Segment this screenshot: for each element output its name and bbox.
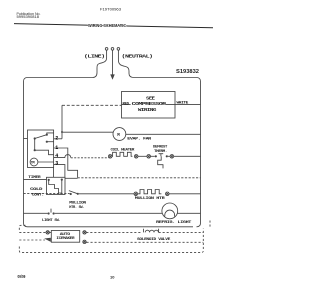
svg-text:5995390818: 5995390818: [17, 15, 40, 19]
svg-text:1: 1: [55, 145, 58, 151]
svg-text:S193832: S193832: [176, 69, 199, 75]
svg-text:TM: TM: [31, 162, 35, 166]
svg-text:WIRING: WIRING: [138, 107, 157, 113]
svg-text:DEFROST: DEFROST: [153, 145, 168, 149]
svg-text:09/09: 09/09: [18, 274, 26, 279]
svg-text:COMPRESSOR: COMPRESSOR: [132, 101, 167, 107]
svg-text:TIMER: TIMER: [28, 176, 41, 180]
svg-text:HTR. SW.: HTR. SW.: [69, 206, 84, 210]
svg-text:CONT.: CONT.: [32, 193, 44, 197]
svg-text:2: 2: [55, 135, 58, 141]
svg-text:COLD: COLD: [30, 188, 44, 192]
svg-text:EVAP. FAN: EVAP. FAN: [127, 138, 151, 142]
svg-text:ICEMAKER: ICEMAKER: [56, 237, 75, 241]
svg-text:(LINE): (LINE): [84, 54, 105, 60]
svg-text:M: M: [117, 134, 120, 138]
svg-text:MULLION HTR: MULLION HTR: [135, 197, 166, 201]
svg-text:(NEUTRAL): (NEUTRAL): [122, 54, 153, 60]
svg-text:WIRING SCHEMATIC: WIRING SCHEMATIC: [88, 23, 126, 29]
svg-text:SEE: SEE: [146, 95, 155, 101]
svg-text:LIGHT SW.: LIGHT SW.: [42, 219, 61, 223]
svg-text:REFRIG. LIGHT: REFRIG. LIGHT: [156, 221, 193, 225]
svg-text:10: 10: [110, 275, 115, 280]
svg-text:4: 4: [55, 153, 58, 159]
svg-text:SOLENOID VALVE: SOLENOID VALVE: [137, 238, 171, 242]
svg-text:MULLION: MULLION: [69, 201, 86, 205]
svg-text:COIL HEATER: COIL HEATER: [111, 148, 136, 152]
svg-text:F19T00963: F19T00963: [100, 8, 121, 12]
svg-text:WHITE: WHITE: [177, 102, 190, 106]
svg-text:3: 3: [55, 161, 58, 167]
svg-text:THERM.: THERM.: [154, 150, 167, 154]
